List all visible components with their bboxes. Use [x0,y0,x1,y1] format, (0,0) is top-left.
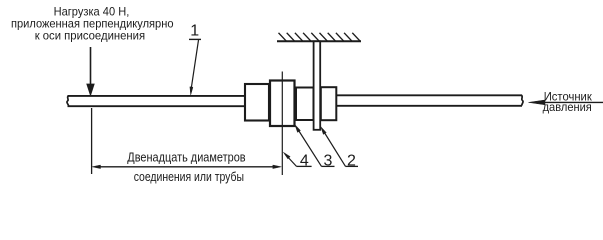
bracket plate (part 2) [314,41,321,130]
label 1 [189,22,201,95]
load force arrow [87,47,94,96]
dimension extension line left [91,108,93,174]
fitting body B (part 4 zone) [270,81,295,127]
svg-text:давления: давления [543,100,592,114]
load annotation text [11,5,174,43]
svg-text:к оси присоединения: к оси присоединения [35,29,145,43]
label 2 [321,127,358,170]
tube break left [67,96,69,106]
svg-text:соединения или трубы: соединения или трубы [134,169,244,184]
fixed support (hatched ceiling) [277,33,361,42]
fitting sleeve C (part 3 zone) [296,88,314,121]
label 4 [283,152,311,169]
fitting sleeve D [321,87,337,120]
pressure source text [543,90,593,114]
tube break right [522,95,524,106]
union nut A of fitting [245,84,269,121]
pressure source arrow [529,100,603,105]
tube (part 1) [68,95,523,106]
svg-text:1: 1 [190,22,199,39]
axis extension line through fitting [281,72,283,176]
dimension line with arrowheads [92,165,281,169]
svg-text:Двенадцать диаметров: Двенадцать диаметров [127,149,245,164]
label 3 [295,125,335,170]
